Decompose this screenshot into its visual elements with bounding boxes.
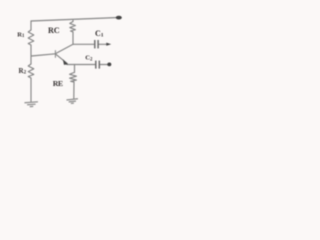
svg-text:C2: C2 [85, 55, 93, 63]
svg-text:RE: RE [53, 79, 63, 88]
svg-text:RC: RC [48, 26, 60, 35]
svg-text:R2: R2 [19, 67, 27, 76]
svg-text:C1: C1 [95, 29, 104, 39]
svg-text:R1: R1 [17, 31, 25, 39]
